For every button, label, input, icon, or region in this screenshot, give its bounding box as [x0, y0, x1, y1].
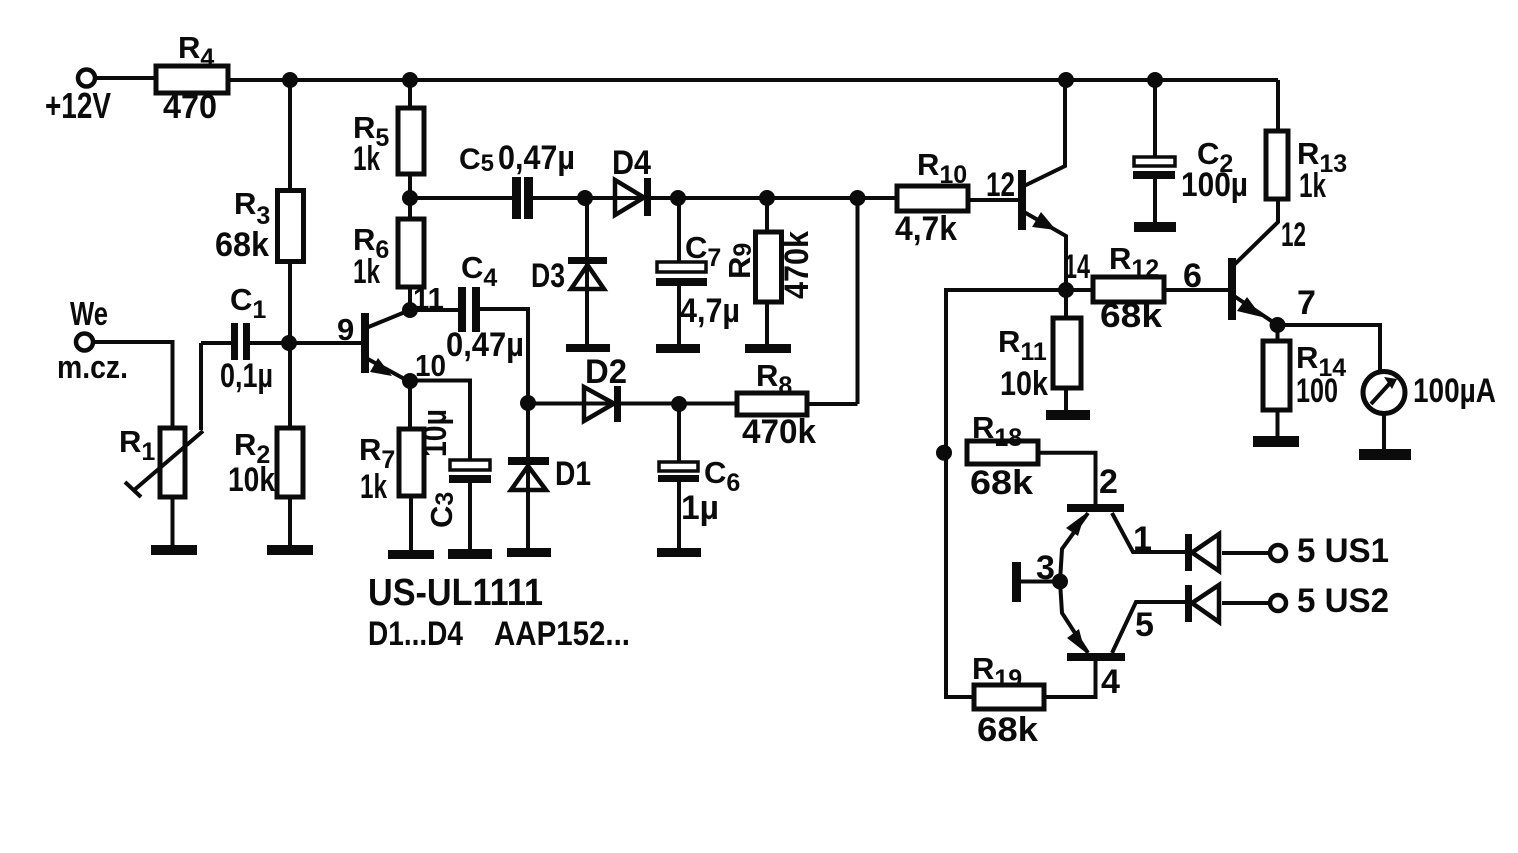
svg-text:2: 2 [1099, 463, 1118, 501]
svg-text:68k: 68k [977, 711, 1038, 749]
svg-text:68k: 68k [215, 226, 269, 264]
svg-text:US-UL1111: US-UL1111 [368, 572, 543, 614]
svg-text:100µA: 100µA [1413, 372, 1496, 410]
svg-text:9: 9 [337, 312, 354, 347]
svg-text:470k: 470k [778, 231, 816, 299]
svg-text:1µ: 1µ [681, 489, 719, 527]
svg-text:12: 12 [986, 166, 1015, 204]
svg-text:3: 3 [1036, 549, 1055, 587]
svg-text:11: 11 [413, 281, 444, 316]
svg-text:D1...D4: D1...D4 [368, 615, 463, 653]
svg-text:10k: 10k [228, 461, 275, 499]
svg-text:100: 100 [1296, 372, 1338, 410]
svg-text:m.cz.: m.cz. [57, 349, 128, 385]
svg-text:4,7µ: 4,7µ [680, 292, 740, 330]
svg-text:100µ: 100µ [1181, 166, 1248, 204]
svg-text:470k: 470k [742, 413, 816, 451]
svg-text:AAP152...: AAP152... [494, 615, 630, 653]
svg-text:5 US1: 5 US1 [1297, 532, 1389, 570]
svg-text:5: 5 [1135, 606, 1154, 644]
svg-text:6: 6 [1183, 257, 1202, 295]
svg-text:1k: 1k [1299, 167, 1326, 205]
svg-text:1: 1 [1133, 520, 1152, 558]
svg-text:1k: 1k [353, 253, 380, 291]
svg-text:0,47µ: 0,47µ [446, 326, 524, 364]
svg-text:D1: D1 [555, 455, 591, 493]
svg-text:4,7k: 4,7k [895, 210, 957, 248]
svg-text:68k: 68k [1100, 297, 1162, 335]
svg-text:10k: 10k [1000, 365, 1048, 403]
svg-text:+12V: +12V [45, 85, 111, 126]
svg-text:5 US2: 5 US2 [1297, 582, 1389, 620]
svg-text:68k: 68k [970, 464, 1033, 502]
svg-text:We: We [70, 295, 108, 332]
svg-text:D2: D2 [585, 353, 627, 391]
svg-text:7: 7 [1297, 284, 1316, 322]
svg-text:0,1µ: 0,1µ [220, 357, 273, 395]
svg-text:D3: D3 [531, 257, 565, 295]
svg-text:0,47µ: 0,47µ [498, 139, 575, 177]
svg-text:1k: 1k [353, 140, 380, 178]
svg-text:14: 14 [1064, 248, 1090, 286]
svg-text:12: 12 [1281, 216, 1306, 254]
svg-text:10: 10 [415, 348, 446, 383]
svg-text:D4: D4 [612, 144, 651, 182]
svg-text:4: 4 [1101, 663, 1120, 701]
svg-text:10µ: 10µ [416, 409, 454, 457]
svg-text:470: 470 [163, 88, 217, 126]
svg-text:1k: 1k [360, 468, 387, 506]
